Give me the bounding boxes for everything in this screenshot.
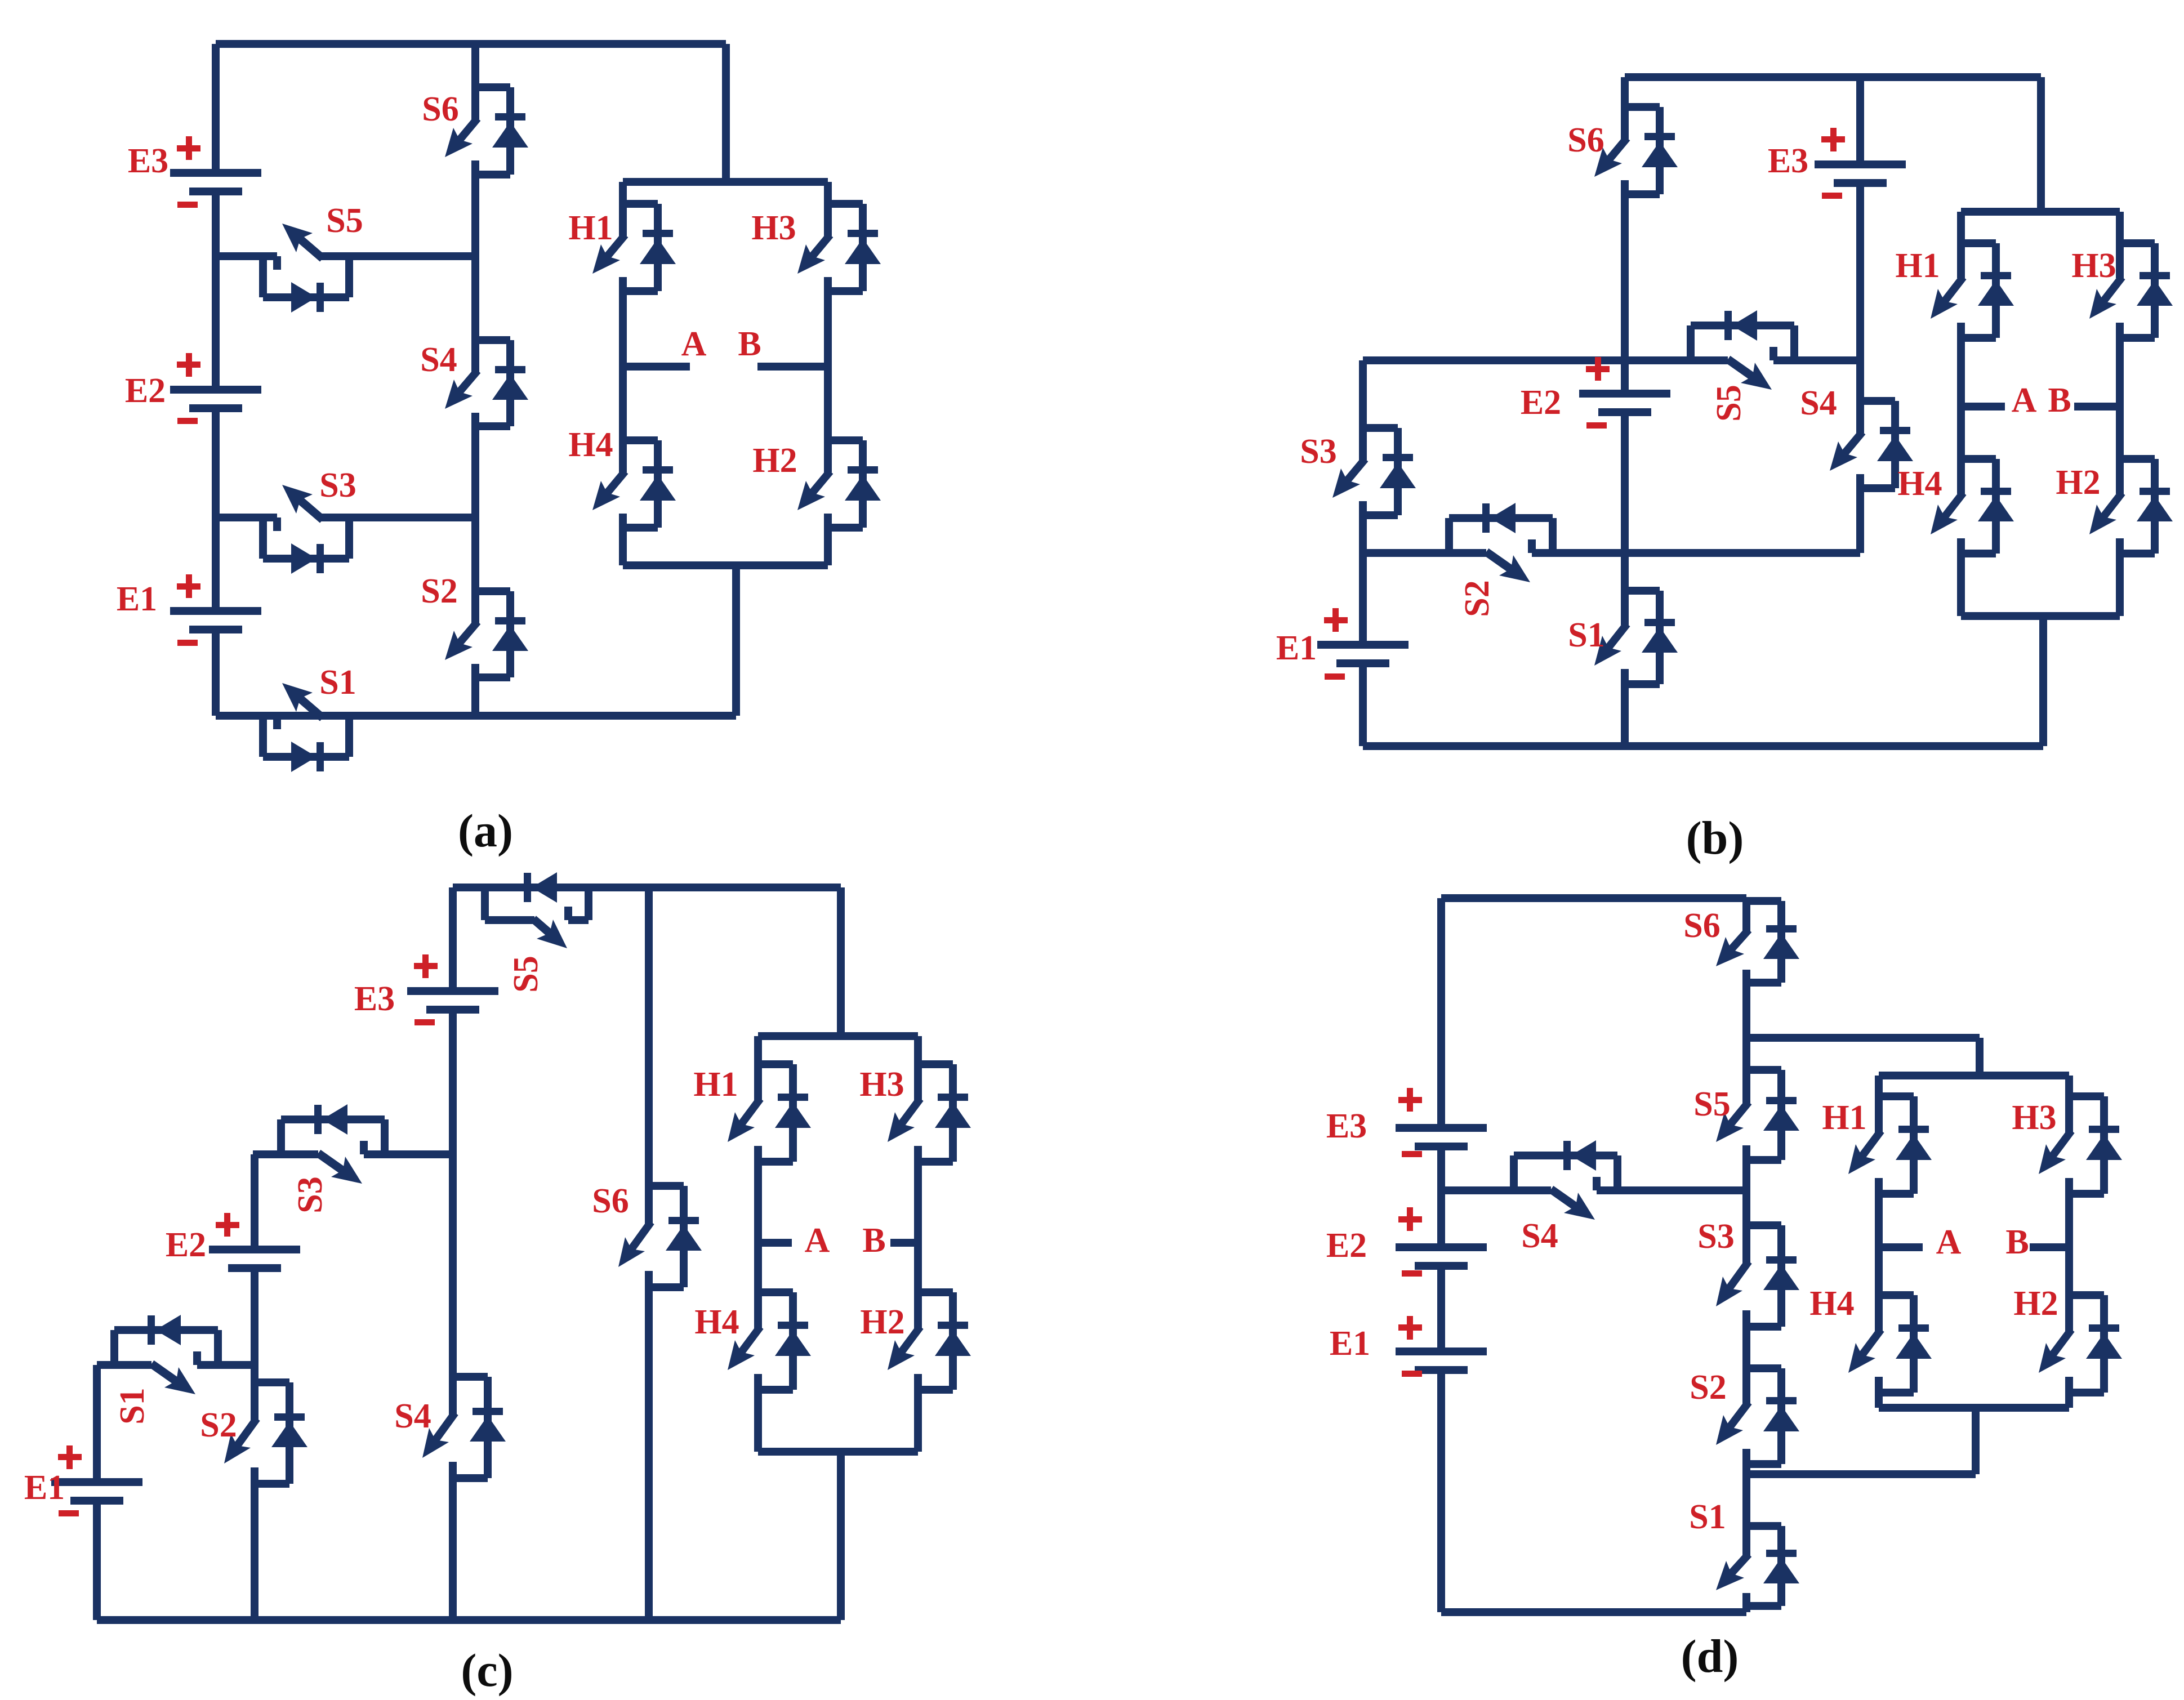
svg-text:E1: E1 [117, 580, 157, 618]
wire H feed bottom (a) [732, 565, 740, 716]
label S2 (c) [200, 1406, 237, 1444]
wire S6-bottom (c) [645, 1287, 653, 1620]
svg-text:A: A [1936, 1223, 1962, 1261]
svg-text:S3: S3 [1300, 432, 1336, 471]
wire H right leg top (a) [824, 182, 832, 204]
switch S1 (b) [1594, 591, 1678, 684]
wire top rail (d) [1441, 894, 1746, 902]
svg-text:S2: S2 [200, 1406, 237, 1444]
switch H1 (d) [1848, 1096, 1932, 1194]
switch H3 (c) [888, 1064, 971, 1162]
wire H top rail (c) [758, 1032, 918, 1040]
switch H3 (b) [2089, 243, 2173, 338]
switch S6 (a) [445, 87, 528, 175]
wire junction-S4 (c) [449, 1154, 457, 1377]
node A stub (d) [1879, 1243, 1923, 1251]
wire S2-junction (d) [1742, 1464, 1750, 1474]
wire S5-S4wire (d) [1742, 1160, 1750, 1190]
label S2 (b) [1458, 580, 1496, 617]
label H2 (a) [752, 441, 797, 480]
wire S6-junction (b) [1621, 194, 1629, 360]
wire junction-S1 (d) [1742, 1474, 1750, 1526]
label H3 (d) [2012, 1099, 2056, 1137]
svg-text:S5: S5 [507, 956, 545, 992]
battery E2 (c) [166, 1213, 300, 1272]
svg-text:S4: S4 [1521, 1217, 1558, 1255]
svg-text:H4: H4 [1897, 465, 1942, 503]
wire H right leg bot (c) [914, 1390, 922, 1452]
wire S2-bottom (a) [471, 677, 479, 716]
wire H left leg mid (d) [1875, 1194, 1883, 1295]
svg-text:S4: S4 [394, 1397, 431, 1435]
label S4 (d) [1521, 1217, 1558, 1255]
label H4 (d) [1809, 1284, 1854, 1323]
switch S2 (c) [224, 1382, 307, 1484]
switch H3 (a) [797, 204, 881, 291]
switch S4 (c) [422, 1377, 506, 1478]
wire left bus (a) E1-bottom [212, 630, 220, 716]
wire E1 top (c) [93, 1365, 101, 1482]
label S3 (a) [319, 466, 356, 505]
node A stub (b) [1961, 403, 2005, 411]
wire H right leg top (b) [2116, 212, 2124, 243]
label H3 (b) [2071, 247, 2116, 285]
label S2 (d) [1690, 1368, 1726, 1407]
wire H left leg bot (c) [754, 1390, 762, 1452]
switch S3 (a) [263, 485, 349, 574]
wire S2-bottom (c) [251, 1484, 258, 1620]
wire left bus (a) E2-E1 [212, 408, 220, 611]
switch S3 (c) [281, 1104, 385, 1184]
caption (c) [461, 1644, 513, 1697]
wire S2 line (b) [1363, 549, 1860, 557]
svg-text:S5: S5 [1710, 385, 1748, 421]
node label A (b) [2012, 381, 2037, 420]
svg-text:H2: H2 [2056, 463, 2100, 502]
switch S5 (c) [485, 872, 589, 948]
node label B (c) [862, 1221, 885, 1260]
wire top rail (b) [1625, 73, 2041, 81]
svg-text:H4: H4 [1809, 1284, 1854, 1323]
svg-text:S1: S1 [319, 663, 356, 702]
wire H right leg bot (d) [2065, 1393, 2073, 1408]
battery E3 (b) [1768, 128, 1906, 199]
wire E3-junction (c) [449, 1010, 457, 1154]
label S2 (a) [421, 572, 457, 610]
wire battery col top (d) [1437, 898, 1445, 1128]
wire S1 line (c) [97, 1361, 255, 1369]
battery E1 (d) [1330, 1316, 1487, 1377]
node B stub (c) [890, 1239, 918, 1247]
wire S5 seg (d) [1742, 1038, 1750, 1070]
label S5 (b) [1710, 385, 1748, 421]
label H2 (c) [860, 1303, 904, 1341]
wire H right leg top (d) [2065, 1076, 2073, 1096]
switch S2 (d) [1716, 1368, 1799, 1464]
wire switch branch (a) top [471, 44, 479, 87]
label S4 (b) [1800, 384, 1837, 422]
svg-text:S6: S6 [1683, 907, 1720, 945]
wire S5 line (b) [1363, 356, 1860, 364]
wire E2-E1 (d) [1437, 1266, 1445, 1351]
node B stub (b) [2074, 403, 2120, 411]
svg-text:E2: E2 [125, 372, 166, 410]
svg-text:S6: S6 [1567, 121, 1604, 159]
battery E3 (a) [128, 136, 261, 208]
wire H right leg mid (a) [824, 291, 832, 440]
wire H feed bottom (c) [837, 1452, 845, 1620]
wire S6-S5wire (d) [1742, 983, 1750, 1038]
svg-text:S4: S4 [420, 341, 457, 379]
wire S1-bottom (d) [1742, 1606, 1750, 1612]
svg-text:(b): (b) [1686, 812, 1744, 864]
wire H right leg mid (c) [914, 1162, 922, 1292]
node B stub (d) [2030, 1243, 2069, 1251]
node A stub (a) [623, 363, 690, 371]
wire H bottom rail (c) [758, 1448, 918, 1456]
wire E3 top (c) [449, 887, 457, 991]
label S3 (d) [1697, 1217, 1734, 1256]
wire bottom rail (b) [1363, 742, 2043, 750]
label S1 (c) [113, 1387, 151, 1424]
switch H4 (b) [1931, 459, 2014, 554]
svg-text:B: B [738, 325, 761, 363]
svg-text:S1: S1 [1689, 1498, 1726, 1536]
wire E2-junction (b) [1621, 412, 1629, 553]
caption (b) [1686, 812, 1744, 864]
wire junction-S1 (b) [1621, 553, 1629, 591]
battery E3 (d) [1326, 1088, 1487, 1157]
label S6 (b) [1567, 121, 1604, 159]
svg-text:E2: E2 [1521, 383, 1561, 422]
svg-text:B: B [862, 1221, 885, 1260]
switch S2 (a) [445, 591, 528, 677]
switch S6 (b) [1594, 107, 1678, 194]
wire S3 line (c) [253, 1150, 453, 1158]
label S3 (b) [1300, 432, 1336, 471]
wire E1-bottom (d) [1437, 1370, 1445, 1612]
wire S3 line (a) [216, 514, 475, 521]
svg-text:E3: E3 [1326, 1107, 1367, 1145]
wire S4 line (d) [1441, 1186, 1746, 1194]
svg-text:(a): (a) [458, 805, 513, 857]
label S4 (c) [394, 1397, 431, 1435]
wire E3 top (b) [1856, 77, 1864, 164]
wire S6-S4 (a) [471, 175, 479, 340]
wire H feed top (b) [2037, 77, 2045, 212]
svg-text:H3: H3 [859, 1065, 904, 1104]
svg-text:H4: H4 [568, 426, 613, 464]
wire H bottom rail (d) [1879, 1404, 2069, 1412]
battery E2 (b) [1521, 357, 1670, 429]
wire bottom rail (d) [1441, 1608, 1746, 1616]
svg-text:E1: E1 [1276, 629, 1317, 667]
wire S1-bottom (b) [1621, 684, 1629, 746]
svg-text:A: A [2012, 381, 2037, 420]
svg-text:H1: H1 [1895, 247, 1940, 285]
node label B (d) [2005, 1223, 2029, 1261]
battery E1 (a) [117, 574, 261, 646]
wire left bus (a) E3-E2 [212, 191, 220, 390]
wire H right leg top (c) [914, 1036, 922, 1064]
node label A (a) [681, 325, 707, 363]
svg-text:S5: S5 [1693, 1085, 1730, 1123]
svg-text:S3: S3 [319, 466, 356, 505]
node label B (a) [738, 325, 761, 363]
label H4 (b) [1897, 465, 1942, 503]
wire H feed bottom (b) [2039, 616, 2047, 746]
wire H top rail (a) [623, 178, 828, 186]
caption (d) [1681, 1630, 1739, 1683]
svg-text:S2: S2 [1690, 1368, 1726, 1407]
wire junction-S4 (b) [1856, 360, 1864, 401]
wire S3 top (b) [1359, 360, 1367, 428]
label S3 (c) [291, 1176, 329, 1213]
label H3 (a) [751, 209, 796, 247]
wire S3-junction (b) [1359, 515, 1367, 553]
wire H left leg top (c) [754, 1036, 762, 1064]
wire output line (d) [1746, 1470, 1976, 1478]
wire H bottom rail (a) [623, 561, 828, 569]
wire H feed top (c) [837, 887, 845, 1036]
wire H top rail (d) [1879, 1072, 2069, 1079]
label S1 (d) [1689, 1498, 1726, 1536]
svg-text:H1: H1 [693, 1065, 738, 1104]
wire H left leg mid (a) [619, 291, 627, 440]
svg-text:S3: S3 [1697, 1217, 1734, 1256]
wire H left leg mid (c) [754, 1162, 762, 1292]
node A stub (c) [758, 1239, 792, 1247]
svg-text:E1: E1 [24, 1469, 65, 1507]
wire E2 top (b) [1621, 360, 1629, 394]
switch S1 (c) [114, 1315, 218, 1394]
switch H2 (c) [888, 1292, 971, 1390]
switch H3 (d) [2039, 1096, 2122, 1194]
wire H left leg bot (b) [1957, 554, 1965, 616]
switch H2 (b) [2089, 459, 2173, 554]
switch S6 (c) [618, 1186, 702, 1287]
svg-text:A: A [805, 1221, 830, 1260]
wire H top feed horizontal (d) [1746, 1034, 1980, 1042]
svg-text:H2: H2 [2013, 1284, 2058, 1323]
label S1 (b) [1568, 616, 1604, 654]
wire H left leg top (b) [1957, 212, 1965, 243]
switch H1 (a) [592, 204, 676, 291]
wire S6 branch top (b) [1621, 77, 1629, 107]
svg-text:H3: H3 [751, 209, 796, 247]
svg-text:E2: E2 [166, 1226, 206, 1264]
switch H4 (c) [728, 1292, 811, 1390]
node label A (c) [805, 1221, 830, 1260]
wire S3-S2 (d) [1742, 1327, 1750, 1368]
switch H4 (d) [1848, 1295, 1932, 1393]
wire H left leg bot (a) [619, 528, 627, 565]
switch H4 (a) [592, 440, 676, 528]
switch S1 (a) [263, 683, 349, 772]
svg-text:H4: H4 [694, 1303, 739, 1341]
svg-text:E3: E3 [354, 980, 395, 1018]
switch H2 (d) [2039, 1295, 2122, 1393]
label S6 (a) [422, 90, 458, 128]
wire left bus (a) top segment [212, 44, 220, 173]
switch S1 (d) [1716, 1526, 1799, 1606]
label H2 (b) [2056, 463, 2100, 502]
switch S3 (d) [1716, 1225, 1799, 1327]
label H3 (c) [859, 1065, 904, 1104]
node label B (b) [2048, 381, 2071, 420]
wire H bottom rail (b) [1961, 612, 2120, 620]
node B stub (a) [757, 363, 828, 371]
wire bottom rail (a) [216, 712, 736, 720]
svg-text:H2: H2 [860, 1303, 904, 1341]
wire H left leg mid (b) [1957, 338, 1965, 459]
switch S2 (b) [1449, 503, 1553, 582]
wire H right leg mid (b) [2116, 338, 2124, 459]
svg-text:E1: E1 [1330, 1324, 1370, 1363]
svg-text:H3: H3 [2071, 247, 2116, 285]
wire junction-E1 (b) [1359, 553, 1367, 645]
wire E1-bottom (c) [93, 1501, 101, 1620]
label H1 (c) [693, 1065, 738, 1104]
battery E1 (c) [24, 1445, 142, 1516]
wire E2 seg (d) [1437, 1190, 1445, 1247]
label S5 (c) [507, 956, 545, 992]
wire H top rail (b) [1961, 208, 2120, 216]
wire E1-bottom (b) [1359, 663, 1367, 746]
switch S4 (a) [445, 340, 528, 426]
svg-text:S2: S2 [421, 572, 457, 610]
switch H2 (a) [797, 440, 881, 528]
svg-text:S6: S6 [592, 1182, 629, 1220]
battery E2 (d) [1326, 1207, 1487, 1277]
label S4 (a) [420, 341, 457, 379]
switch S5 (d) [1716, 1070, 1799, 1160]
svg-text:S1: S1 [1568, 616, 1604, 654]
svg-text:H2: H2 [752, 441, 797, 480]
battery E2 (a) [125, 353, 261, 424]
switch S5 (b) [1691, 310, 1794, 390]
svg-text:S4: S4 [1800, 384, 1837, 422]
switch S5 (a) [263, 224, 349, 313]
battery E1 (b) [1276, 608, 1409, 680]
wire S3corner-E2 (c) [251, 1154, 258, 1250]
wire H left leg top (d) [1875, 1076, 1883, 1096]
svg-text:E3: E3 [1768, 142, 1808, 180]
svg-text:(c): (c) [461, 1644, 513, 1697]
label H4 (c) [694, 1303, 739, 1341]
node label A (d) [1936, 1223, 1962, 1261]
label S6 (c) [592, 1182, 629, 1220]
svg-text:S2: S2 [1458, 580, 1496, 617]
wire top rail (c) [453, 884, 841, 891]
switch H1 (c) [728, 1064, 811, 1162]
svg-text:B: B [2048, 381, 2071, 420]
wire H right leg mid (d) [2065, 1194, 2073, 1295]
wire H left leg bot (d) [1875, 1393, 1883, 1408]
wire S4-bottom (c) [449, 1478, 457, 1620]
svg-text:S5: S5 [326, 202, 363, 240]
label S5 (d) [1693, 1085, 1730, 1123]
label S5 (a) [326, 202, 363, 240]
svg-text:A: A [681, 325, 707, 363]
svg-text:E3: E3 [128, 142, 168, 180]
wire E3-E2 (d) [1437, 1146, 1445, 1190]
svg-text:S1: S1 [113, 1387, 151, 1424]
wire S6 feed (c) [645, 887, 653, 1186]
wire junction-S2 (c) [251, 1365, 258, 1382]
switch H1 (b) [1931, 243, 2014, 338]
wire H feed top (a) [722, 44, 730, 182]
svg-text:S6: S6 [422, 90, 458, 128]
wire S5 line (a) [216, 252, 475, 260]
wire E3-junction (b) [1856, 183, 1864, 360]
svg-text:(d): (d) [1681, 1630, 1739, 1683]
svg-text:S3: S3 [291, 1176, 329, 1213]
label H2 (d) [2013, 1284, 2058, 1323]
switch S4 (b) [1830, 401, 1913, 488]
battery E3 (c) [354, 954, 498, 1025]
switch S6 (d) [1716, 901, 1799, 983]
wire H left leg top (a) [619, 182, 627, 204]
wire H bottom feed vertical (d) [1972, 1408, 1980, 1474]
switch S4 (d) [1514, 1140, 1617, 1220]
label S1 (a) [319, 663, 356, 702]
svg-text:H1: H1 [1822, 1099, 1866, 1137]
svg-text:H3: H3 [2012, 1099, 2056, 1137]
label H1 (b) [1895, 247, 1940, 285]
svg-text:B: B [2005, 1223, 2029, 1261]
wire S4wire-S3 (d) [1742, 1190, 1750, 1225]
svg-text:H1: H1 [568, 209, 613, 247]
label H1 (d) [1822, 1099, 1866, 1137]
wire H right leg bot (b) [2116, 554, 2124, 616]
wire H top feed vertical (d) [1976, 1038, 1984, 1076]
label S6 (d) [1683, 907, 1720, 945]
wire E2-junction (c) [251, 1268, 258, 1365]
wire bottom rail (c) [97, 1616, 841, 1624]
wire S4-S2 (a) [471, 426, 479, 591]
switch S3 (b) [1332, 428, 1416, 515]
label H4 (a) [568, 426, 613, 464]
wire S4-corner (b) [1856, 488, 1864, 553]
wire top rail (a) [216, 40, 726, 48]
wire H right leg bot (a) [824, 528, 832, 565]
caption (a) [458, 805, 513, 857]
svg-text:E2: E2 [1326, 1226, 1367, 1265]
label H1 (a) [568, 209, 613, 247]
